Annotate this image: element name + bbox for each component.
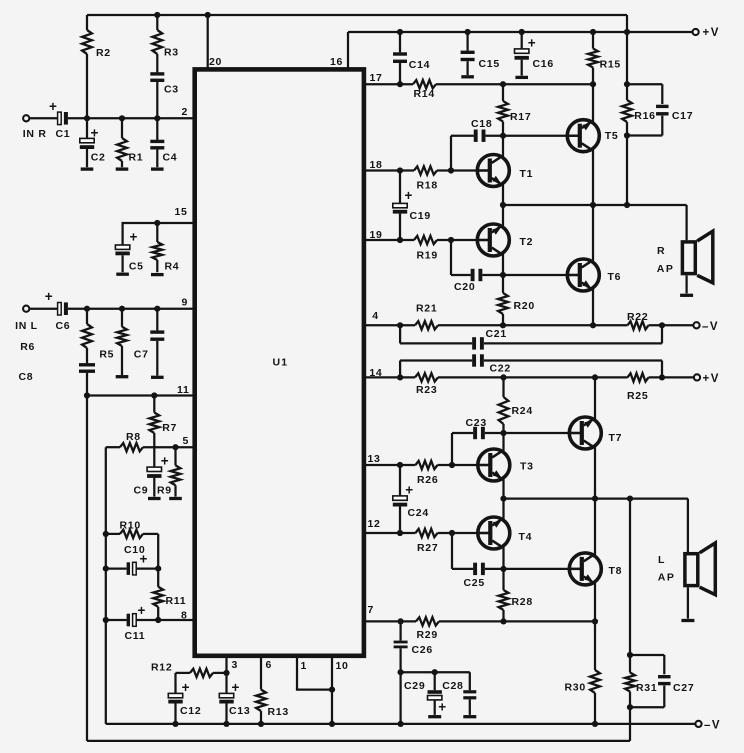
wire node to speaker L (687, 499, 689, 552)
wire pins 1-10 link (297, 656, 332, 690)
ground C29 (428, 715, 441, 718)
IN L / C6 labels (15, 320, 70, 332)
R20 label (514, 300, 535, 312)
T5 label (605, 130, 619, 142)
transistor T1 (477, 155, 509, 187)
wire pin 14 (365, 376, 415, 378)
wire pin 19 to T2 base (437, 239, 491, 241)
junction pin14/R24 (500, 374, 506, 380)
svg-text:+: + (138, 603, 146, 618)
junction pin12/C24 (397, 530, 403, 536)
wire pin 17 to R15 (436, 83, 593, 85)
resistor R27 (416, 529, 438, 537)
junction pin17/R17 (500, 81, 506, 87)
pin 11 label (177, 384, 190, 396)
svg-text:C4: C4 (163, 152, 178, 164)
svg-text:1: 1 (301, 660, 308, 672)
svg-text:R11: R11 (166, 595, 187, 607)
C16 plus (528, 36, 536, 51)
junction R31-C27 bottom (627, 704, 633, 710)
R4 label (165, 261, 180, 273)
capacitor C17 (627, 84, 669, 135)
T1 label (520, 168, 534, 180)
capacitor C29 (428, 672, 442, 715)
pin 14 label (369, 367, 382, 379)
svg-text:19: 19 (370, 229, 383, 241)
R2 label (96, 47, 111, 59)
T6 label (608, 271, 622, 283)
C10 label (124, 544, 145, 556)
svg-text:R23: R23 (416, 384, 437, 396)
wire output node L (504, 497, 688, 499)
R6 label (20, 341, 35, 353)
svg-text:C5: C5 (129, 261, 144, 273)
resistor R4 (152, 223, 162, 272)
svg-text:C22: C22 (490, 363, 511, 375)
svg-text:R28: R28 (512, 596, 533, 608)
wire pin 4 (365, 324, 415, 326)
svg-text:8: 8 (181, 610, 188, 622)
svg-text:C3: C3 (164, 84, 179, 96)
pin 3 label (232, 659, 239, 671)
C28 label (442, 680, 463, 692)
wire T5 base (503, 135, 581, 137)
resistor R20 (498, 275, 508, 325)
junction rail/pin10 (329, 721, 335, 727)
-V bottom label (704, 720, 721, 732)
resistor R11 (153, 569, 163, 620)
C23 label (466, 417, 487, 429)
wire IN L to C6 (30, 308, 58, 310)
ground R9 (169, 497, 182, 500)
svg-text:+: + (405, 482, 413, 497)
svg-text:R6: R6 (20, 341, 35, 353)
junction pin19/C20 branch (448, 237, 454, 243)
wire pin 7 to T8/R30 (439, 620, 595, 622)
junction pin14/T7 (592, 374, 598, 380)
svg-text:5: 5 (183, 435, 190, 447)
junction node/C29 (432, 669, 438, 675)
svg-text:C13: C13 (229, 705, 250, 717)
resistor R3 (152, 15, 162, 72)
svg-text:20: 20 (209, 56, 222, 68)
junction pin17/C14 (397, 81, 403, 87)
capacitor C18 (451, 130, 503, 171)
terminal +V mid (694, 374, 700, 380)
svg-text:R5: R5 (99, 349, 114, 361)
svg-text:C9: C9 (134, 485, 149, 497)
capacitor C9 (147, 447, 161, 496)
svg-text:C6: C6 (56, 320, 71, 332)
svg-text:R29: R29 (417, 629, 438, 641)
ground C15 (461, 75, 474, 78)
svg-text:C16: C16 (533, 58, 554, 70)
svg-text:3: 3 (232, 659, 239, 671)
svg-text:R2: R2 (96, 47, 111, 59)
wire pin 18 to T1 base (437, 169, 491, 171)
svg-text:T7: T7 (609, 432, 623, 444)
junction +V/C16 (519, 29, 525, 35)
wire T6 collector up (592, 205, 594, 261)
junction rail/R13 (258, 721, 264, 727)
svg-text:R8: R8 (126, 431, 141, 443)
junction pins1-10 link/pin10 (329, 687, 335, 693)
R17 label (510, 111, 531, 123)
resistor R15 (588, 32, 598, 84)
C25 label (464, 577, 485, 589)
pin 7 label (368, 604, 375, 616)
capacitor C3 (150, 72, 164, 118)
svg-text:R16: R16 (634, 110, 655, 122)
wire T5 emitter up (592, 84, 594, 122)
pin 17 label (370, 72, 383, 84)
C17 label (672, 110, 693, 122)
T8 label (609, 565, 623, 577)
svg-text:C18: C18 (471, 118, 492, 130)
resistor R29 (416, 617, 439, 625)
junction pin5/R9 (172, 444, 178, 450)
C6 plus (45, 289, 53, 304)
R7 label (162, 422, 177, 434)
R14 label (414, 88, 435, 100)
junction pin7/T8-R30 (592, 618, 598, 624)
junction rail/C26 node (398, 721, 404, 727)
speaker L AP (685, 543, 715, 595)
wire C29-C28 node (401, 671, 470, 673)
junction top rail pin20 stub (205, 12, 211, 18)
ground C5 (116, 273, 129, 276)
R3 label (164, 47, 179, 59)
T2 label (520, 236, 534, 248)
resistor R6 (82, 309, 92, 364)
C9 plus (161, 454, 169, 469)
wire top rail drop to +V node (626, 15, 628, 84)
R5 label (99, 349, 114, 361)
T4 label (519, 531, 533, 543)
wire pin 5 right part (143, 446, 193, 448)
svg-text:C27: C27 (673, 682, 694, 694)
wire pin 3 stub (225, 656, 227, 673)
+V top label (703, 27, 720, 39)
C20 label (454, 281, 475, 293)
junction pin7/C26 (398, 618, 404, 624)
resistor R14 (413, 80, 436, 88)
svg-text:AP: AP (658, 572, 676, 584)
resistor R12 (176, 669, 227, 677)
pin 16 label (330, 56, 343, 68)
wire output node R (503, 204, 687, 206)
svg-text:R19: R19 (417, 250, 438, 262)
capacitor C27 (630, 655, 671, 707)
transistor T2 (477, 224, 509, 256)
junction pin9/R6 (84, 306, 90, 312)
R31 label (636, 682, 657, 694)
svg-text:R18: R18 (417, 180, 438, 192)
pin 5 label (183, 435, 190, 447)
junction C11/R11 (155, 617, 161, 623)
capacitor C22 (400, 354, 662, 377)
junction C18/R17/T5 base (500, 133, 506, 139)
junction pin18/C18 branch (448, 167, 454, 173)
resistor R25 (628, 373, 649, 381)
C7 label (134, 349, 149, 361)
svg-text:T6: T6 (608, 271, 622, 283)
svg-text:17: 17 (370, 72, 383, 84)
svg-text:C21: C21 (486, 328, 507, 340)
junction nodeL/T7-T8 (592, 496, 598, 502)
junction pin19/C19 (397, 237, 403, 243)
svg-text:C19: C19 (410, 210, 431, 222)
resistor R1 (117, 118, 127, 167)
ground C4 (151, 167, 164, 170)
capacitor C6 (58, 302, 68, 315)
svg-text:R7: R7 (162, 422, 177, 434)
ground speaker R (680, 294, 693, 297)
wire pin 12 to T4 base (438, 532, 492, 534)
capacitor C16 (515, 32, 529, 76)
capacitor C13 (219, 673, 233, 724)
svg-text:R14: R14 (414, 88, 435, 100)
svg-text:6: 6 (266, 659, 273, 671)
ground C9 (148, 497, 161, 500)
C5 plus (129, 229, 137, 244)
svg-text:R27: R27 (417, 542, 438, 554)
svg-text:R24: R24 (512, 405, 533, 417)
svg-text:18: 18 (370, 159, 383, 171)
R21 label (416, 303, 437, 315)
svg-text:C8: C8 (19, 371, 34, 383)
wire top rail (87, 14, 627, 16)
C12 label (180, 705, 201, 717)
resistor R21 (415, 321, 438, 329)
svg-text:–V: –V (704, 720, 721, 732)
capacitor C28 (463, 672, 476, 715)
resistor R2 (82, 15, 92, 118)
wire T3 emitter down (502, 479, 504, 499)
junction R31-C27 top (627, 652, 633, 658)
wire T7 collector down (594, 447, 596, 499)
svg-text:16: 16 (330, 56, 343, 68)
junction pin11/C8 loop (84, 392, 90, 398)
wire pin 9 (68, 308, 193, 310)
wire left loop vertical (R8 down to -V rail) (105, 447, 107, 724)
wire pin10 to -V rail (331, 690, 333, 724)
R1 label (129, 152, 144, 164)
svg-text:15: 15 (175, 206, 188, 218)
C18 label (471, 118, 492, 130)
wire node to speaker R (685, 205, 687, 240)
junction loop/R10 (103, 531, 109, 537)
wire pin 5 (106, 446, 120, 448)
wire pin 12 (365, 532, 416, 534)
speaker R AP (682, 231, 712, 283)
wire T4 emitter down (502, 547, 504, 569)
capacitor C1 (58, 112, 68, 125)
wire T5 collector down (592, 149, 594, 205)
capacitor C26 (394, 621, 408, 672)
pin 13 label (368, 453, 381, 465)
svg-text:10: 10 (336, 660, 349, 672)
svg-text:R4: R4 (165, 261, 180, 273)
junction rail/C13 (223, 721, 229, 727)
R23 label (416, 384, 437, 396)
resistor R17 (498, 84, 508, 136)
C16 label (533, 58, 554, 70)
C29 plus (438, 700, 446, 715)
svg-text:7: 7 (368, 604, 375, 616)
ground speaker L (681, 619, 694, 622)
junction output node R / T1-T2 (500, 202, 506, 208)
resistor R8 (120, 443, 143, 451)
junction nodeL/R31-C27 (627, 496, 633, 502)
wire pin 11 (87, 394, 193, 396)
svg-text:R17: R17 (510, 111, 531, 123)
svg-text:4: 4 (372, 310, 379, 322)
wire +V top rail (348, 31, 692, 33)
svg-text:T3: T3 (520, 461, 534, 473)
transistor T7 (569, 417, 601, 449)
ground C7 (151, 376, 164, 379)
junction pin4/C21 (397, 322, 403, 328)
C8 label (19, 371, 34, 383)
R29 label (417, 629, 438, 641)
wire pin 7 (365, 620, 416, 622)
IN R / C1 labels (23, 128, 71, 140)
wire T7 emitter up (594, 377, 596, 419)
svg-text:R22: R22 (627, 311, 648, 323)
R22 label (627, 311, 648, 323)
wire pin 14 to R25 (438, 376, 628, 378)
junction loop/C11 (103, 617, 109, 623)
capacitor C12 (168, 673, 182, 724)
R13 label (268, 706, 289, 718)
wire T6 emitter down (592, 289, 594, 326)
pin 12 label (368, 518, 381, 530)
svg-text:+: + (45, 289, 53, 304)
capacitor C23 (452, 427, 504, 465)
junction pin14/C22 (397, 374, 403, 380)
pin 8 label (181, 610, 188, 622)
C12 plus (182, 680, 190, 695)
R9 label (157, 485, 172, 497)
svg-text:+: + (182, 680, 190, 695)
C13 plus (232, 680, 240, 695)
capacitor C4 (150, 118, 164, 167)
svg-text:R20: R20 (514, 300, 535, 312)
ground C28 (463, 715, 476, 718)
resistor R5 (117, 309, 127, 375)
resistor R28 (499, 569, 509, 622)
wire pin 20 stub (207, 15, 209, 70)
R19 label (417, 250, 438, 262)
C19 plus (405, 188, 413, 203)
C11 label (125, 630, 146, 642)
C5 label (129, 261, 144, 273)
capacitor C7 (150, 309, 164, 376)
junction C26/C29-C28 node (398, 669, 404, 675)
svg-text:C14: C14 (409, 59, 430, 71)
junction rail/R16-C17 top (624, 81, 630, 87)
junction +V/C22 loop (659, 374, 665, 380)
svg-text:C11: C11 (125, 630, 146, 642)
C14 label (409, 59, 430, 71)
junction pin9/C7 (154, 306, 160, 312)
svg-text:R10: R10 (120, 520, 141, 532)
svg-text:R: R (657, 245, 665, 257)
capacitor C8 (79, 363, 95, 741)
C24 label (408, 507, 429, 519)
C26 label (412, 644, 433, 656)
junction pin17/R15-T5 (590, 81, 596, 87)
capacitor C19 (393, 171, 407, 241)
R27 label (417, 542, 438, 554)
ground C16 (515, 76, 528, 79)
svg-text:R25: R25 (627, 390, 648, 402)
R30 label (565, 682, 586, 694)
junction loop/C10 (103, 566, 109, 572)
pin 10 label (336, 660, 349, 672)
junction pin12/C25 branch (449, 530, 455, 536)
junction C25/T4/R28/T8 base (500, 566, 506, 572)
junction pin4/R20 (500, 322, 506, 328)
resistor R7 (149, 396, 159, 448)
pin 9 label (182, 297, 189, 309)
capacitor C24 (393, 465, 407, 533)
svg-text:C28: C28 (442, 680, 463, 692)
transistor T8 (569, 553, 601, 585)
R28 label (512, 596, 533, 608)
svg-text:C23: C23 (466, 417, 487, 429)
svg-text:R9: R9 (157, 485, 172, 497)
capacitor C25 (452, 533, 504, 575)
svg-text:C17: C17 (672, 110, 693, 122)
resistor R13 (256, 656, 266, 724)
terminal +V top (693, 29, 699, 35)
svg-text:T4: T4 (519, 531, 533, 543)
junction C10/R11 (155, 566, 161, 572)
svg-text:C7: C7 (134, 349, 149, 361)
junction pin15/R4 (154, 220, 160, 226)
pin 15 label (175, 206, 188, 218)
C27 label (673, 682, 694, 694)
capacitor C11 (106, 614, 158, 627)
svg-text:+: + (91, 126, 99, 141)
svg-text:C29: C29 (404, 680, 425, 692)
ground R4 (151, 273, 164, 276)
wire nodeL down to R31-C27 (629, 499, 631, 655)
junction pin13/C23 branch (449, 462, 455, 468)
svg-text:R26: R26 (417, 474, 438, 486)
capacitor C14 (393, 32, 407, 84)
terminal -V mid (693, 322, 699, 328)
wire R25 to +V (649, 376, 694, 378)
R10 label (120, 520, 141, 532)
resistor R24 (499, 377, 509, 433)
R AP label (657, 245, 675, 275)
svg-text:+: + (161, 454, 169, 469)
svg-text:R30: R30 (565, 682, 586, 694)
wire R16-C17 to output node (626, 136, 628, 206)
svg-text:T2: T2 (520, 236, 534, 248)
resistor R16 (622, 84, 632, 135)
resistor R10 (106, 530, 158, 538)
resistor R22 (628, 321, 649, 329)
R18 label (417, 180, 438, 192)
junction rail/C12 (172, 721, 178, 727)
resistor R30 (590, 621, 600, 724)
svg-text:R15: R15 (600, 59, 621, 71)
wire -V rail (106, 723, 695, 725)
